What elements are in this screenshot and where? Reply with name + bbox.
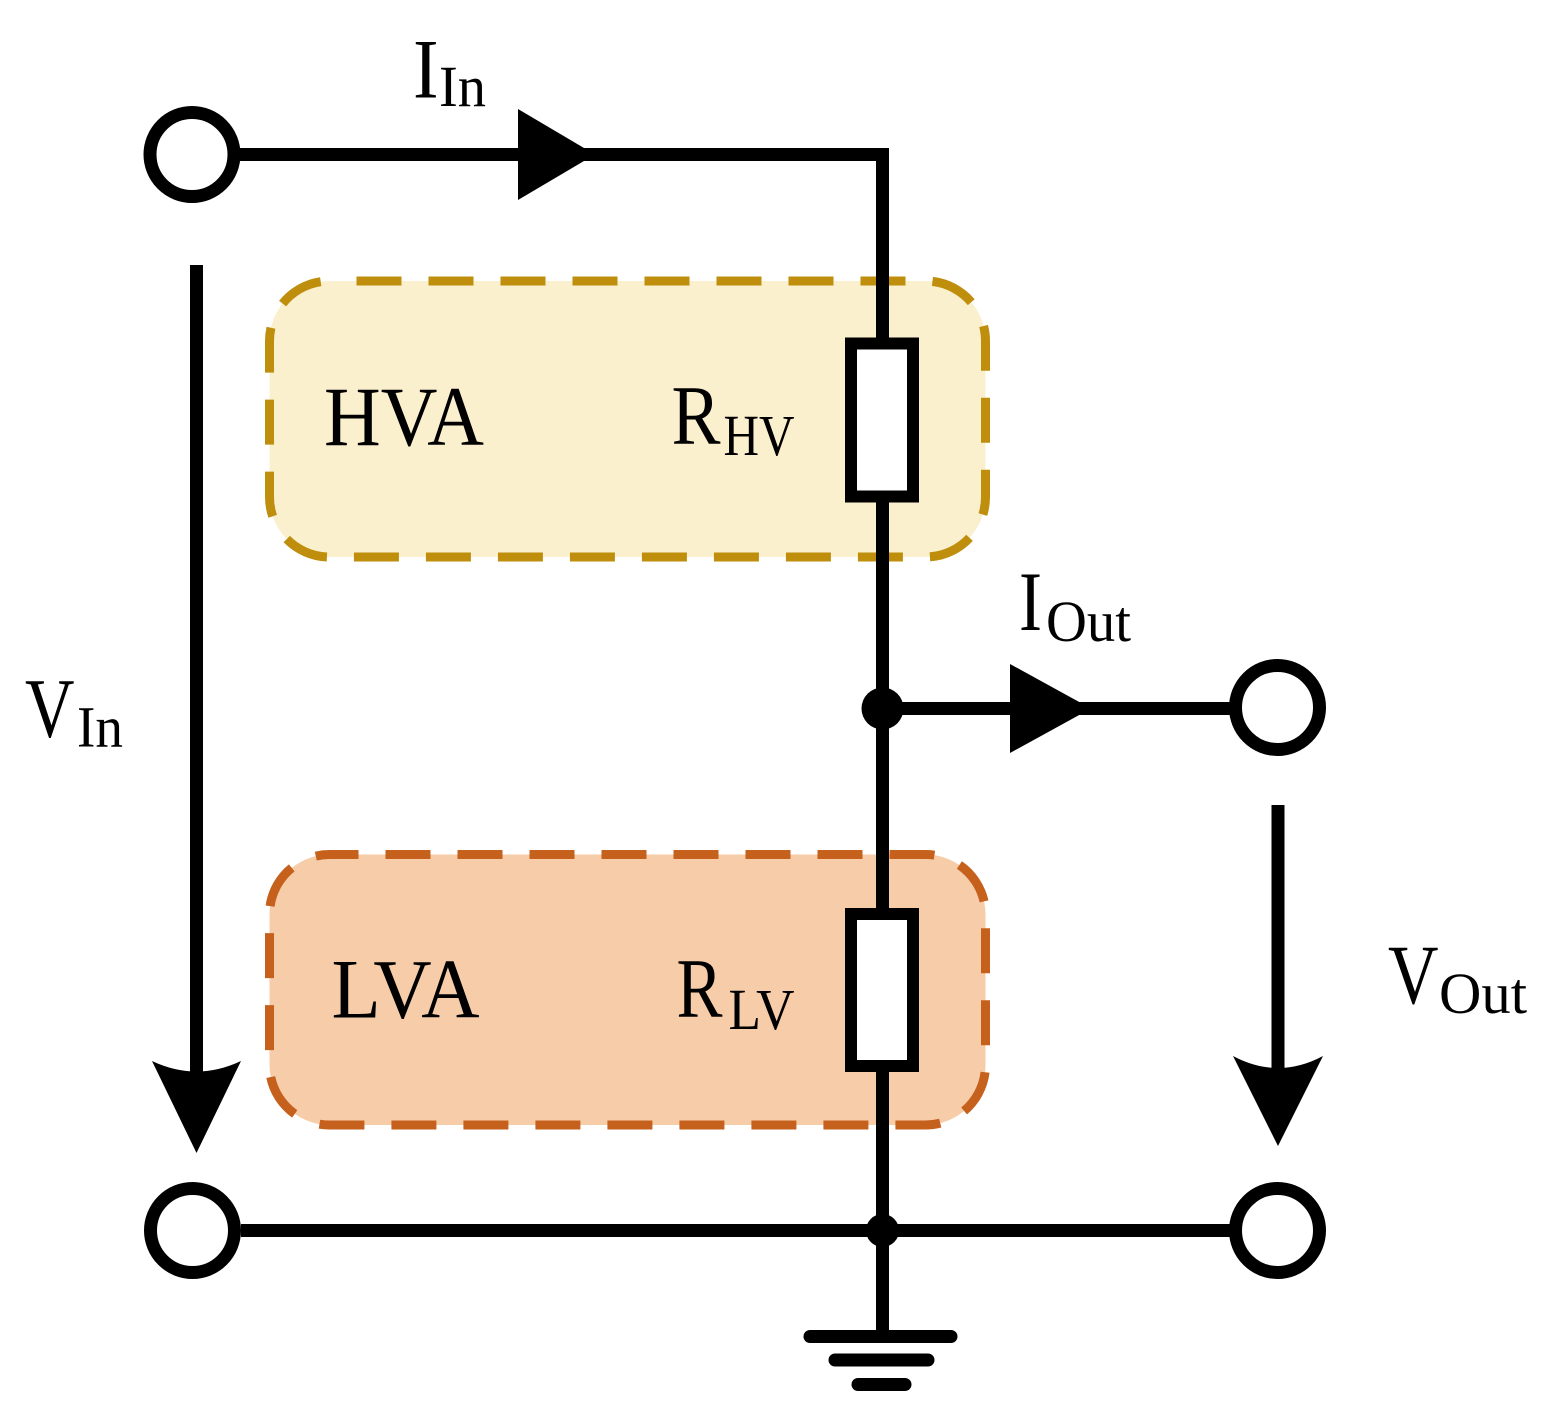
svg-text:V: V	[25, 662, 75, 756]
svg-text:R: R	[677, 942, 723, 1036]
svg-text:Out: Out	[1439, 961, 1527, 1026]
svg-text:V: V	[1388, 928, 1439, 1022]
svg-text:In: In	[77, 695, 123, 760]
svg-text:LV: LV	[729, 977, 795, 1042]
svg-text:I: I	[413, 23, 439, 117]
svg-text:In: In	[439, 54, 486, 119]
svg-text:Out: Out	[1046, 589, 1131, 654]
svg-text:HVA: HVA	[324, 370, 484, 464]
svg-text:LVA: LVA	[332, 943, 480, 1037]
svg-text:R: R	[672, 369, 721, 463]
svg-text:I: I	[1019, 555, 1042, 649]
svg-text:HV: HV	[724, 403, 795, 468]
